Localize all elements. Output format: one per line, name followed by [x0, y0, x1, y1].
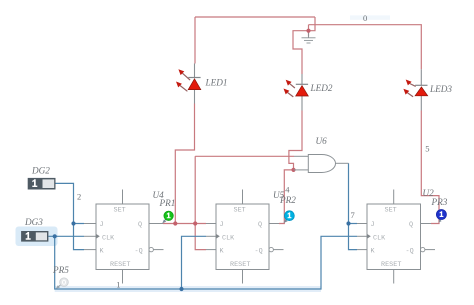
pin stub U4 K	[84, 249, 96, 251]
wire net0 vertical at ground	[308, 25, 310, 37]
svg-text:SET: SET	[385, 207, 397, 215]
wire net4 U5 Q up to U6 input B	[279, 170, 294, 224]
junction net4 at U6 input B	[291, 168, 295, 172]
pin stub U4 CLK	[84, 235, 96, 237]
svg-text:J: J	[100, 221, 104, 229]
wire net3 vertical to U6 and U5 K	[195, 156, 206, 249]
pin stub U5 CLK	[206, 235, 216, 237]
svg-text:Q: Q	[409, 221, 413, 229]
probe PR1	[162, 211, 173, 223]
svg-text:PR2: PR2	[279, 195, 296, 205]
svg-text:4: 4	[285, 185, 290, 195]
pin stub U6 input A	[294, 155, 308, 157]
digital constant DG3	[21, 231, 48, 242]
junction net2 at J	[71, 221, 75, 225]
wire net4 LED2 zigzag down	[289, 111, 302, 170]
LED3	[403, 69, 427, 110]
wire net3 to U6 input A	[195, 155, 294, 157]
svg-text:-Q: -Q	[255, 248, 263, 256]
ground symbol	[302, 32, 316, 44]
wires net5 U2 Q	[421, 111, 439, 224]
pin stub U4 J	[84, 223, 96, 225]
svg-text:DG2: DG2	[31, 166, 50, 176]
net 1 selection halo on bottom bus	[16, 227, 322, 290]
pin stub U5 J	[206, 223, 216, 225]
svg-text:CLK: CLK	[373, 234, 386, 242]
and gate U6	[308, 155, 335, 173]
wires net4 U5 Q	[279, 111, 302, 224]
flip-flop U2	[367, 190, 435, 284]
svg-text:PR3: PR3	[431, 197, 448, 207]
wire net0 top horizontal	[195, 16, 315, 18]
svg-text:DG3: DG3	[24, 217, 43, 227]
wires net3 U4 Q	[163, 104, 294, 250]
wire net0 to LED2	[293, 31, 309, 74]
flip-flop U4	[96, 190, 164, 284]
junction net1 at bus	[179, 287, 183, 291]
wire net0 to LED3	[309, 25, 422, 69]
svg-text:PR5: PR5	[52, 265, 69, 275]
probe PR5	[56, 278, 69, 289]
svg-text:CLK: CLK	[102, 234, 115, 242]
probe PR3	[436, 210, 446, 223]
wire net7 U6 out to U2 K	[349, 163, 358, 249]
wire net1 DG3 to U4 CLK	[48, 235, 84, 237]
svg-text:7: 7	[351, 210, 355, 220]
wire net3 Q to J horizontal	[163, 223, 206, 225]
wires net1 DG3 clocks	[48, 236, 357, 289]
digital constant DG2	[28, 178, 56, 190]
wires net2 DG2	[56, 183, 85, 249]
pin stub U6 input B	[294, 169, 309, 171]
flip-flop U5	[216, 190, 284, 284]
junction net1 at DG3	[53, 234, 57, 238]
svg-text:SET: SET	[234, 207, 246, 215]
svg-text:U6: U6	[316, 136, 328, 146]
svg-text:LED1: LED1	[205, 78, 228, 88]
wire net3 branch to LED1	[175, 104, 194, 224]
junction net3 U6 branch	[193, 221, 197, 225]
svg-text:LED3: LED3	[429, 84, 452, 94]
svg-text:RESET: RESET	[230, 261, 250, 269]
wire net5 LED3 down to U2 Q	[421, 111, 439, 224]
svg-text:LED2: LED2	[310, 83, 333, 93]
pin stub U2 CLK	[357, 235, 367, 237]
svg-text:1: 1	[116, 280, 120, 290]
junction net0 at ground	[306, 29, 310, 33]
svg-text:Q: Q	[258, 221, 262, 229]
wire net2 DG2 to K	[56, 183, 85, 249]
pin stub U5 K	[206, 249, 216, 251]
svg-text:0: 0	[363, 13, 367, 23]
svg-text:5: 5	[425, 144, 429, 154]
wires net7 U6 output	[349, 163, 358, 249]
svg-text:-Q: -Q	[406, 248, 414, 256]
net 0 highlight band	[350, 15, 390, 19]
wire net1 bottom bus to U2 CLK	[55, 236, 357, 289]
svg-text:RESET: RESET	[381, 261, 401, 269]
svg-text:-Q: -Q	[135, 248, 143, 256]
pin stub U2 Q	[421, 223, 432, 225]
svg-text:J: J	[220, 221, 224, 229]
LED1	[176, 64, 201, 104]
wire net0 right drop	[309, 17, 316, 31]
pin stub U6 output	[336, 162, 349, 164]
wire net7 branch to U2 J	[349, 223, 358, 225]
svg-text:RESET: RESET	[110, 261, 130, 269]
junction net3 LED1 branch	[173, 221, 177, 225]
pin stub U5 Q	[269, 223, 279, 225]
svg-text:2: 2	[77, 191, 81, 201]
svg-text:Q: Q	[138, 221, 142, 229]
wires net0 ground bus	[195, 17, 421, 74]
svg-text:PR1: PR1	[159, 198, 176, 208]
pin stub U2 J	[357, 223, 367, 225]
svg-text:J: J	[371, 221, 375, 229]
LED2	[284, 74, 309, 111]
pin stub U2 K	[357, 249, 367, 251]
junction net7 at U2 J	[346, 221, 350, 225]
wire net0 down to LED1	[194, 17, 196, 64]
wire net1 branch to U5 CLK	[182, 236, 207, 289]
svg-text:SET: SET	[114, 207, 126, 215]
svg-text:CLK: CLK	[222, 234, 235, 242]
probe PR2	[284, 211, 295, 223]
pin stub U4 Q	[149, 223, 163, 225]
wire net2 branch to J	[74, 223, 85, 225]
